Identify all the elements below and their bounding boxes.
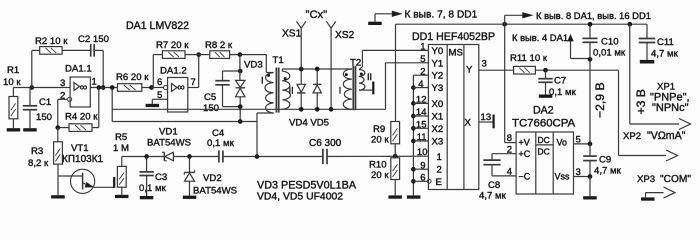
ground xyxy=(640,60,655,64)
svg-text:VD3: VD3 xyxy=(244,60,263,71)
svg-text:6: 6 xyxy=(157,77,162,88)
svg-text:Vo: Vo xyxy=(557,137,568,147)
capacitor C10 xyxy=(583,24,626,59)
diode VD5 xyxy=(313,69,321,109)
resistor R4 xyxy=(65,112,98,132)
chip DA2 TC7660CPA xyxy=(512,105,576,195)
pin 5 label xyxy=(157,90,162,101)
svg-text:VD4 VD5: VD4 VD5 xyxy=(289,118,329,129)
label select 2 xyxy=(437,165,442,176)
svg-text:X0: X0 xyxy=(432,99,444,110)
pin 4 label xyxy=(418,79,423,90)
pin 3 label xyxy=(60,78,65,89)
svg-text:150: 150 xyxy=(203,103,219,114)
pin 8 label xyxy=(507,133,512,144)
ground xyxy=(641,197,655,200)
node A xyxy=(29,85,34,90)
svg-text:К выв. 4 DA1: К выв. 4 DA1 xyxy=(512,32,568,43)
wire xyxy=(327,155,428,157)
wire pin9 of DD1 xyxy=(411,167,428,172)
wire pin14 of DD1 xyxy=(411,114,428,119)
svg-text:DC: DC xyxy=(538,147,550,157)
label -2.9V xyxy=(593,82,607,118)
svg-text:+V: +V xyxy=(519,137,530,147)
capacitor C5 xyxy=(203,71,230,114)
node T xyxy=(502,22,507,27)
svg-text:6: 6 xyxy=(420,173,425,184)
label Y0 xyxy=(432,46,444,57)
ground xyxy=(583,196,597,199)
svg-text:DA1.2: DA1.2 xyxy=(160,66,187,77)
wire pin2 xyxy=(58,99,68,127)
label Y3 xyxy=(432,83,444,94)
node M xyxy=(238,119,243,124)
node V xyxy=(588,57,593,62)
svg-text:15: 15 xyxy=(416,120,427,131)
op-amp DA1 label xyxy=(126,20,189,32)
label X xyxy=(465,118,472,129)
capacitor C11 xyxy=(639,24,679,60)
arrow to pin 8 DA1 pin 16 DD1 xyxy=(505,10,651,24)
label X0 xyxy=(432,99,444,110)
svg-text:+C: +C xyxy=(519,149,531,159)
wire pin5 xyxy=(574,143,591,145)
chip DD1 HEF4052BP xyxy=(412,31,495,190)
node O xyxy=(299,107,304,112)
node E xyxy=(144,154,149,159)
node K xyxy=(238,69,243,74)
svg-text:I: I xyxy=(261,76,264,86)
svg-text:0,1 мк: 0,1 мк xyxy=(549,87,577,98)
wire DA2 supply xyxy=(504,24,506,142)
resistor R10 xyxy=(369,158,400,181)
node U xyxy=(543,68,548,73)
ground xyxy=(51,195,64,198)
node B xyxy=(101,85,106,90)
node G xyxy=(255,154,260,159)
wire rail xyxy=(122,156,164,158)
wire pin5 of DD1 xyxy=(386,63,429,110)
svg-text:BAT54WS: BAT54WS xyxy=(147,138,191,149)
svg-text:1 М: 1 М xyxy=(113,143,129,154)
wire pin4 xyxy=(492,165,516,176)
wire xyxy=(535,69,618,71)
svg-text:Y3: Y3 xyxy=(432,83,444,94)
wire pin1 of DD1 xyxy=(362,49,428,51)
wire xyxy=(230,54,267,56)
svg-text:150: 150 xyxy=(36,112,52,123)
wire xyxy=(57,128,59,196)
ground xyxy=(368,14,382,25)
wire pin5 xyxy=(152,99,167,104)
wire +3V down xyxy=(629,24,631,124)
wire pin7 xyxy=(188,55,199,88)
svg-text:К выв. 7, 8 DD1: К выв. 7, 8 DD1 xyxy=(405,10,478,21)
svg-text:VT1: VT1 xyxy=(71,143,89,154)
op-amp DA1.2 xyxy=(160,66,188,113)
pin 3 label xyxy=(576,167,581,178)
svg-text:BAT54WS: BAT54WS xyxy=(193,186,237,197)
svg-text:R5: R5 xyxy=(115,132,127,143)
label Y1 xyxy=(432,58,444,69)
suppressor VD3 xyxy=(236,55,263,122)
svg-text:XS1: XS1 xyxy=(282,29,302,40)
capacitor C9 xyxy=(583,144,621,177)
resistor R3 xyxy=(28,142,62,169)
arrow to pin 4 DA1 xyxy=(512,32,590,59)
svg-text:VD1: VD1 xyxy=(159,127,178,138)
svg-text:4,7 мк: 4,7 мк xyxy=(594,166,622,177)
svg-text:0,01 мк: 0,01 мк xyxy=(593,48,626,59)
svg-text:"NPNс": "NPNс" xyxy=(652,102,689,114)
transistor VT1 xyxy=(58,143,114,193)
node W xyxy=(588,22,593,27)
svg-text:2: 2 xyxy=(420,66,425,77)
svg-text:R4 20 к: R4 20 к xyxy=(65,112,98,123)
svg-text:+3 В: +3 В xyxy=(634,89,648,114)
svg-text:C6 300: C6 300 xyxy=(309,138,342,149)
resistor R11 xyxy=(510,53,548,74)
svg-text:VD2: VD2 xyxy=(203,173,222,184)
pin 14 label xyxy=(416,107,427,118)
ground xyxy=(146,104,160,107)
node N xyxy=(299,67,304,72)
wire pin3 xyxy=(32,87,70,89)
svg-text:II: II xyxy=(367,72,372,82)
svg-text:10 к: 10 к xyxy=(3,77,21,88)
svg-text:I: I xyxy=(339,85,342,95)
wire lower link xyxy=(112,88,257,122)
wire grounded bus xyxy=(412,75,414,195)
transformer T2 xyxy=(339,50,373,110)
svg-text:Vss: Vss xyxy=(555,171,571,181)
svg-text:VD4, VD5 UF4002: VD4, VD5 UF4002 xyxy=(257,192,343,203)
wire bridge bottom rail xyxy=(112,108,385,110)
wire xyxy=(394,144,396,158)
node Q xyxy=(315,107,320,112)
svg-text:X1: X1 xyxy=(432,112,444,123)
svg-text:C11: C11 xyxy=(657,37,674,48)
svg-text:3: 3 xyxy=(482,59,487,70)
pin 9 label xyxy=(420,160,425,171)
label X3 xyxy=(432,137,444,148)
node Y1n xyxy=(588,142,593,147)
wire xyxy=(223,106,241,108)
svg-text:R1: R1 xyxy=(7,65,19,76)
svg-text:0,1 мк: 0,1 мк xyxy=(139,183,167,194)
wire xyxy=(142,87,152,89)
ground xyxy=(23,128,37,131)
label VD3 type xyxy=(257,180,357,192)
svg-text:12: 12 xyxy=(416,95,427,106)
svg-text:XP2: XP2 xyxy=(623,131,641,142)
node D2 xyxy=(110,85,115,90)
svg-text:R2 10 к: R2 10 к xyxy=(35,36,68,47)
capacitor C1 xyxy=(23,88,52,129)
svg-text:R11 10 к: R11 10 к xyxy=(510,53,548,64)
svg-text:−C: −C xyxy=(519,171,531,181)
wire -2.9V xyxy=(589,59,591,144)
op-amp DA1.1 xyxy=(65,64,92,108)
node Z xyxy=(588,174,593,179)
label Y xyxy=(466,65,473,76)
pin 5 label xyxy=(420,54,425,65)
svg-text:MS: MS xyxy=(449,48,463,59)
svg-text:R7 20 к: R7 20 к xyxy=(156,40,189,51)
svg-text:DA2: DA2 xyxy=(533,105,554,117)
node J xyxy=(238,52,243,57)
wire xyxy=(185,54,199,56)
diode VD1 xyxy=(147,127,191,161)
pin 15 label xyxy=(416,120,427,131)
svg-text:4,7 мк: 4,7 мк xyxy=(651,49,679,60)
pin 6 label xyxy=(420,173,425,184)
svg-text:1: 1 xyxy=(437,152,442,163)
svg-text:1: 1 xyxy=(92,77,97,88)
ground xyxy=(388,195,402,198)
svg-text:4: 4 xyxy=(418,79,423,90)
pin 10 label xyxy=(417,147,428,158)
capacitor C8 xyxy=(479,160,507,201)
wire pin15 of DD1 xyxy=(411,126,428,131)
svg-text:14: 14 xyxy=(416,107,427,118)
pin 6 label xyxy=(157,77,162,88)
resistor R6 xyxy=(116,72,149,91)
svg-text:4,7 мк: 4,7 мк xyxy=(479,191,507,202)
capacitor C7 xyxy=(538,70,576,98)
ground xyxy=(115,195,129,198)
label VD4 VD5 type xyxy=(257,192,343,203)
svg-text:1: 1 xyxy=(420,42,425,53)
pin 12 label xyxy=(416,95,427,106)
svg-text:"COM": "COM" xyxy=(660,174,691,185)
ground xyxy=(140,196,154,199)
node P xyxy=(315,67,320,72)
wire xyxy=(32,50,40,87)
svg-text:R3: R3 xyxy=(31,146,43,157)
ground xyxy=(183,196,197,199)
wire xyxy=(394,180,396,196)
pin 1 label xyxy=(92,77,97,88)
probe XS2 xyxy=(326,21,354,109)
pin 11 label xyxy=(417,132,427,143)
node L xyxy=(238,104,243,109)
label +3V xyxy=(634,89,648,114)
wire pin2 of DD1 xyxy=(413,74,428,76)
svg-text:VD3 PESD5V0L1BA: VD3 PESD5V0L1BA xyxy=(257,180,357,192)
wire pin6 of DD1 xyxy=(411,179,431,184)
node F xyxy=(187,154,192,159)
wire pin2 xyxy=(492,154,516,160)
svg-text:R8 2 к: R8 2 к xyxy=(205,40,233,51)
wire xyxy=(199,54,210,56)
label select 1 xyxy=(437,152,442,163)
wire pin3 xyxy=(574,176,591,178)
arrow to pins 7,8 DD1 xyxy=(375,10,478,21)
ground xyxy=(407,195,421,198)
svg-text:C2 150: C2 150 xyxy=(78,34,109,45)
pin 2 label xyxy=(60,91,65,102)
svg-text:C10: C10 xyxy=(601,37,619,48)
node D xyxy=(96,85,101,90)
svg-text:9: 9 xyxy=(420,160,425,171)
svg-text:20 к: 20 к xyxy=(371,135,389,146)
wire xyxy=(589,177,591,197)
node I xyxy=(196,52,201,57)
pin 2 label xyxy=(420,66,425,77)
svg-text:DA1.1: DA1.1 xyxy=(65,64,92,75)
svg-text:13: 13 xyxy=(481,112,492,123)
plug XP3 xyxy=(637,174,691,198)
resistor R5 xyxy=(113,132,129,187)
svg-text:КП103К1: КП103К1 xyxy=(62,154,104,165)
chassis bar xyxy=(113,177,115,188)
svg-text:Y2: Y2 xyxy=(432,71,444,82)
wire pin4 of DD1 xyxy=(411,85,428,90)
node H xyxy=(149,85,154,90)
resistor R1 xyxy=(3,65,21,128)
svg-text:2: 2 xyxy=(437,165,442,176)
ground xyxy=(7,128,21,131)
wire xyxy=(121,157,123,195)
capacitor C3 xyxy=(139,157,167,197)
plug XP1 xyxy=(630,82,691,130)
label VD4 VD5 xyxy=(289,118,329,129)
resistor R2 xyxy=(35,36,68,54)
probe XS1 xyxy=(282,21,306,69)
svg-text:0,1 мк: 0,1 мк xyxy=(207,138,235,149)
svg-text:XS2: XS2 xyxy=(335,30,355,41)
node C xyxy=(55,125,60,130)
capacitor C6 xyxy=(309,138,342,164)
svg-text:7: 7 xyxy=(191,77,196,88)
pin 4 label xyxy=(507,167,512,178)
wire pin13 of DD1 xyxy=(479,121,493,123)
svg-text:Y0: Y0 xyxy=(432,46,444,57)
label X1 xyxy=(432,112,444,123)
ground xyxy=(539,95,553,98)
svg-text:II: II xyxy=(289,85,294,95)
chassis bar xyxy=(372,82,374,95)
wire xyxy=(13,87,31,89)
pin 3 label xyxy=(482,59,487,70)
svg-text:∞: ∞ xyxy=(177,82,185,94)
wire xyxy=(92,88,99,128)
wire xyxy=(94,50,103,87)
svg-text:8,2 к: 8,2 к xyxy=(28,158,49,169)
svg-text:E: E xyxy=(436,177,442,188)
pin 1 label xyxy=(420,42,425,53)
svg-text:Y1: Y1 xyxy=(432,58,444,69)
svg-text:11: 11 xyxy=(417,132,427,143)
svg-text:DA1 LMV822: DA1 LMV822 xyxy=(126,20,189,32)
wire +3V top rail xyxy=(396,24,648,121)
wire pin3 of DD1 xyxy=(479,69,514,71)
svg-text:X2: X2 xyxy=(432,124,444,135)
label E xyxy=(436,177,442,188)
capacitor C4 xyxy=(207,128,235,163)
transformer T1 xyxy=(257,55,294,122)
resistor R7 xyxy=(156,40,189,58)
svg-text:C9: C9 xyxy=(599,155,611,166)
wire xyxy=(62,49,91,51)
svg-text:10: 10 xyxy=(417,147,428,158)
svg-text:XP3: XP3 xyxy=(637,174,655,185)
pin 2 label xyxy=(507,144,512,155)
svg-text:C5: C5 xyxy=(204,92,216,103)
wire xyxy=(256,122,258,157)
wire pin12 of DD1 xyxy=(411,101,428,106)
wire xyxy=(153,55,162,88)
capacitor C2 xyxy=(78,34,109,57)
svg-text:"Cx": "Cx" xyxy=(306,9,328,21)
label Cx xyxy=(306,9,328,21)
svg-text:X3: X3 xyxy=(432,137,444,148)
plug XP2 xyxy=(619,70,686,161)
svg-text:T1: T1 xyxy=(273,55,284,66)
wire xyxy=(173,156,219,158)
pin 7 label xyxy=(191,77,196,88)
svg-text:C1: C1 xyxy=(39,97,51,108)
svg-text:5: 5 xyxy=(420,54,425,65)
svg-text:C3: C3 xyxy=(155,172,167,183)
svg-text:Y: Y xyxy=(466,65,473,76)
svg-text:20 к: 20 к xyxy=(371,170,389,181)
wire pin11 of DD1 xyxy=(411,139,428,144)
node X1n xyxy=(627,22,632,27)
svg-text:−2,9 В: −2,9 В xyxy=(593,82,607,118)
svg-text:C8: C8 xyxy=(488,180,500,191)
wire bridge top rail xyxy=(282,68,352,70)
svg-text:TC7660CPA: TC7660CPA xyxy=(512,118,576,130)
pin 13 label xyxy=(481,112,492,123)
label X2 xyxy=(432,124,444,135)
diode VD2 xyxy=(184,157,237,197)
svg-text:∞: ∞ xyxy=(80,82,88,94)
resistor R8 xyxy=(205,40,233,58)
diode VD4 xyxy=(297,69,305,109)
svg-text:R9: R9 xyxy=(373,124,385,135)
wire rail xyxy=(223,156,323,158)
node R xyxy=(329,107,334,112)
svg-text:X: X xyxy=(465,118,472,129)
wire xyxy=(58,127,69,129)
svg-text:"VΩmA": "VΩmA" xyxy=(647,130,686,142)
resistor R9 xyxy=(371,122,400,146)
label Y2 xyxy=(432,71,444,82)
node S xyxy=(393,154,398,159)
chassis bar xyxy=(493,115,495,129)
svg-text:R6 20 к: R6 20 к xyxy=(116,72,149,83)
wire pin1 output xyxy=(90,87,117,89)
svg-text:R10: R10 xyxy=(369,160,387,171)
pin 5 label xyxy=(576,135,581,146)
svg-text:C7: C7 xyxy=(554,76,566,87)
svg-text:DC: DC xyxy=(538,135,550,145)
wire xyxy=(223,70,241,72)
wire pin6 xyxy=(152,87,164,89)
wire pin8 xyxy=(505,142,516,144)
svg-text:К выв. 8 DA1, выв. 16 DD1: К выв. 8 DA1, выв. 16 DD1 xyxy=(536,10,651,21)
